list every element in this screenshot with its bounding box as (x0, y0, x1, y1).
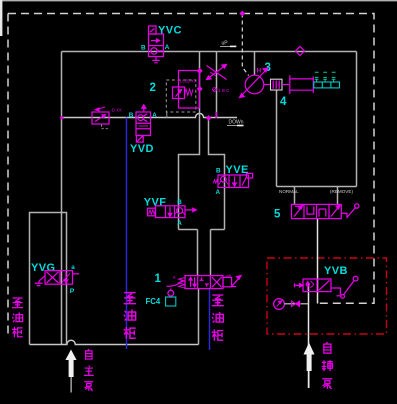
main circuit frame right vertical (356, 52, 358, 187)
text 至油柜 left (12, 298, 23, 308)
riser A x=199.5 (179, 52, 200, 230)
svg-text:B: B (177, 199, 182, 206)
svg-text:4: 4 (280, 96, 287, 108)
terminal block row (314, 82, 340, 88)
frame edge artifact top (0, 0, 397, 1)
node drain-boundary tick (239, 11, 245, 17)
pressure tag UP underline (220, 45, 236, 47)
aux pump arrow (304, 343, 315, 389)
valve YVG port stub (73, 273, 80, 275)
svg-text:YVG: YVG (31, 262, 55, 274)
pump 3 circle (245, 75, 264, 94)
pump riser x=254 (254, 52, 256, 76)
blue drain line left (126, 118, 128, 350)
valve YVC tank drain (152, 57, 159, 63)
riser C x=216 (throttle leg) (216, 52, 218, 118)
cylinder link line (282, 84, 289, 86)
valve 1 right cap and lever (223, 276, 241, 287)
svg-text:NORMAL: NORMAL (279, 189, 299, 194)
aux pump line (308, 283, 310, 388)
left reservoir box (30, 213, 67, 345)
svg-text:LCB)-XX: LCB)-XX (180, 79, 197, 84)
svg-text:B: B (216, 168, 221, 175)
svg-text:FC4: FC4 (146, 297, 161, 306)
svg-text:YVE: YVE (226, 164, 249, 176)
node comp2 top diamond (197, 68, 203, 74)
valve 5 body (292, 204, 342, 218)
main pump arrow (65, 350, 76, 393)
valve YVF pilot tap arrow (185, 208, 196, 211)
svg-text:-D XX: -D XX (111, 108, 122, 113)
svg-text:YVD: YVD (130, 143, 154, 155)
svg-text:5: 5 (274, 209, 281, 221)
flow control drain dashed (102, 125, 110, 129)
svg-text:wb: wb (226, 274, 232, 279)
pump 3 variable arrow (240, 68, 269, 98)
manifold shelf y=229 (179, 229, 225, 231)
valve YVE body (218, 173, 253, 187)
FC4 stub (170, 289, 172, 291)
throttle tag text (213, 88, 217, 92)
text 自主泵 (86, 349, 92, 359)
gauge isolator bowtie (292, 301, 300, 307)
valve YVB lever (337, 276, 359, 298)
svg-text:A: A (152, 112, 157, 119)
valve YVD body (136, 112, 151, 136)
svg-text:YVC: YVC (158, 25, 182, 37)
valve YVD drain box (136, 136, 143, 143)
bottom return line with pump inlet bump (30, 340, 199, 344)
valve1 feed stubs (198, 230, 211, 277)
text 至油柜 middle (124, 293, 137, 304)
main circuit frame top line (62, 51, 357, 53)
valve YVE solenoid zigzag (213, 180, 218, 183)
valve YVB inlet arrow (295, 283, 304, 287)
valve YVG body (45, 271, 73, 285)
node riser B junction (206, 115, 212, 121)
svg-text:A: A (177, 220, 182, 227)
valve YVB drain path (331, 288, 340, 295)
red dash-dot enclosure (aux pump unit) (267, 258, 387, 334)
main circuit frame left vertical (61, 52, 63, 345)
case drain dashed (242, 14, 248, 76)
svg-text:A: A (216, 189, 221, 196)
node pressure diamond on top rail (295, 46, 304, 55)
pressure tag DOWN underline (227, 125, 244, 127)
terminal block pin marks (315, 72, 336, 82)
FC4 roller circle (168, 290, 174, 296)
valve YVG drain bend (35, 276, 45, 286)
text 自辅泵 (324, 342, 331, 353)
svg-text:P: P (70, 288, 75, 295)
FC4 switch box (166, 297, 176, 306)
riser B x=208.5 (209, 118, 225, 230)
valve5 outlet line to YVB (317, 219, 319, 304)
gauge link line (284, 303, 309, 305)
text 至油柜 right (212, 295, 224, 306)
valve 1 body (185, 276, 223, 289)
valve 1 spring (179, 278, 185, 288)
svg-text:a: a (71, 264, 75, 271)
mid pressure rail y=118 with crossover arc (62, 113, 238, 117)
valve YVF body (156, 206, 186, 218)
valve YVD pilot arrow (142, 105, 146, 112)
pilot valve 2 body (173, 71, 200, 109)
svg-text:1: 1 (155, 273, 162, 285)
svg-text:uP: uP (222, 40, 229, 46)
valve YVC body (149, 34, 164, 57)
svg-text:B: B (129, 112, 134, 119)
actuator box (item 4 enclosure) (277, 90, 357, 187)
outer dashed boundary (8, 14, 374, 304)
svg-text:B: B (141, 44, 146, 51)
valve1 tank drop (198, 289, 200, 345)
flow control valve (mid rail) body (92, 107, 109, 124)
valve5 feed stubs (295, 187, 338, 205)
svg-text:YVB: YVB (324, 265, 348, 277)
node riser C junction (215, 112, 217, 118)
coupling 4 box (271, 79, 283, 90)
valve YVF solenoid cap (148, 208, 156, 216)
svg-text:1 B C: 1 B C (218, 88, 230, 93)
node gauge diamond (297, 302, 302, 307)
cylinder body (290, 75, 314, 94)
variable throttle X symbol (207, 65, 227, 80)
node comp2 mid diamond (197, 86, 203, 92)
valve YVB body (303, 279, 331, 292)
svg-text:H: H (257, 69, 261, 75)
gauge circle (274, 299, 285, 310)
svg-text:2: 2 (150, 82, 156, 94)
svg-text:(REMOVE): (REMOVE) (330, 189, 353, 194)
svg-text:A: A (165, 44, 170, 51)
valve 1 left drain bend (167, 280, 184, 287)
coupling 4 output line (264, 84, 271, 86)
blue drain line right (209, 289, 211, 351)
valve 5 drain and lever (341, 204, 359, 219)
pilot valve 2 dashed enclosure (166, 80, 196, 112)
frame edge artifact left (0, 0, 2, 36)
valve YVC pilot box (149, 26, 157, 34)
node main-left junction (60, 116, 63, 119)
gauge needle (277, 301, 282, 307)
